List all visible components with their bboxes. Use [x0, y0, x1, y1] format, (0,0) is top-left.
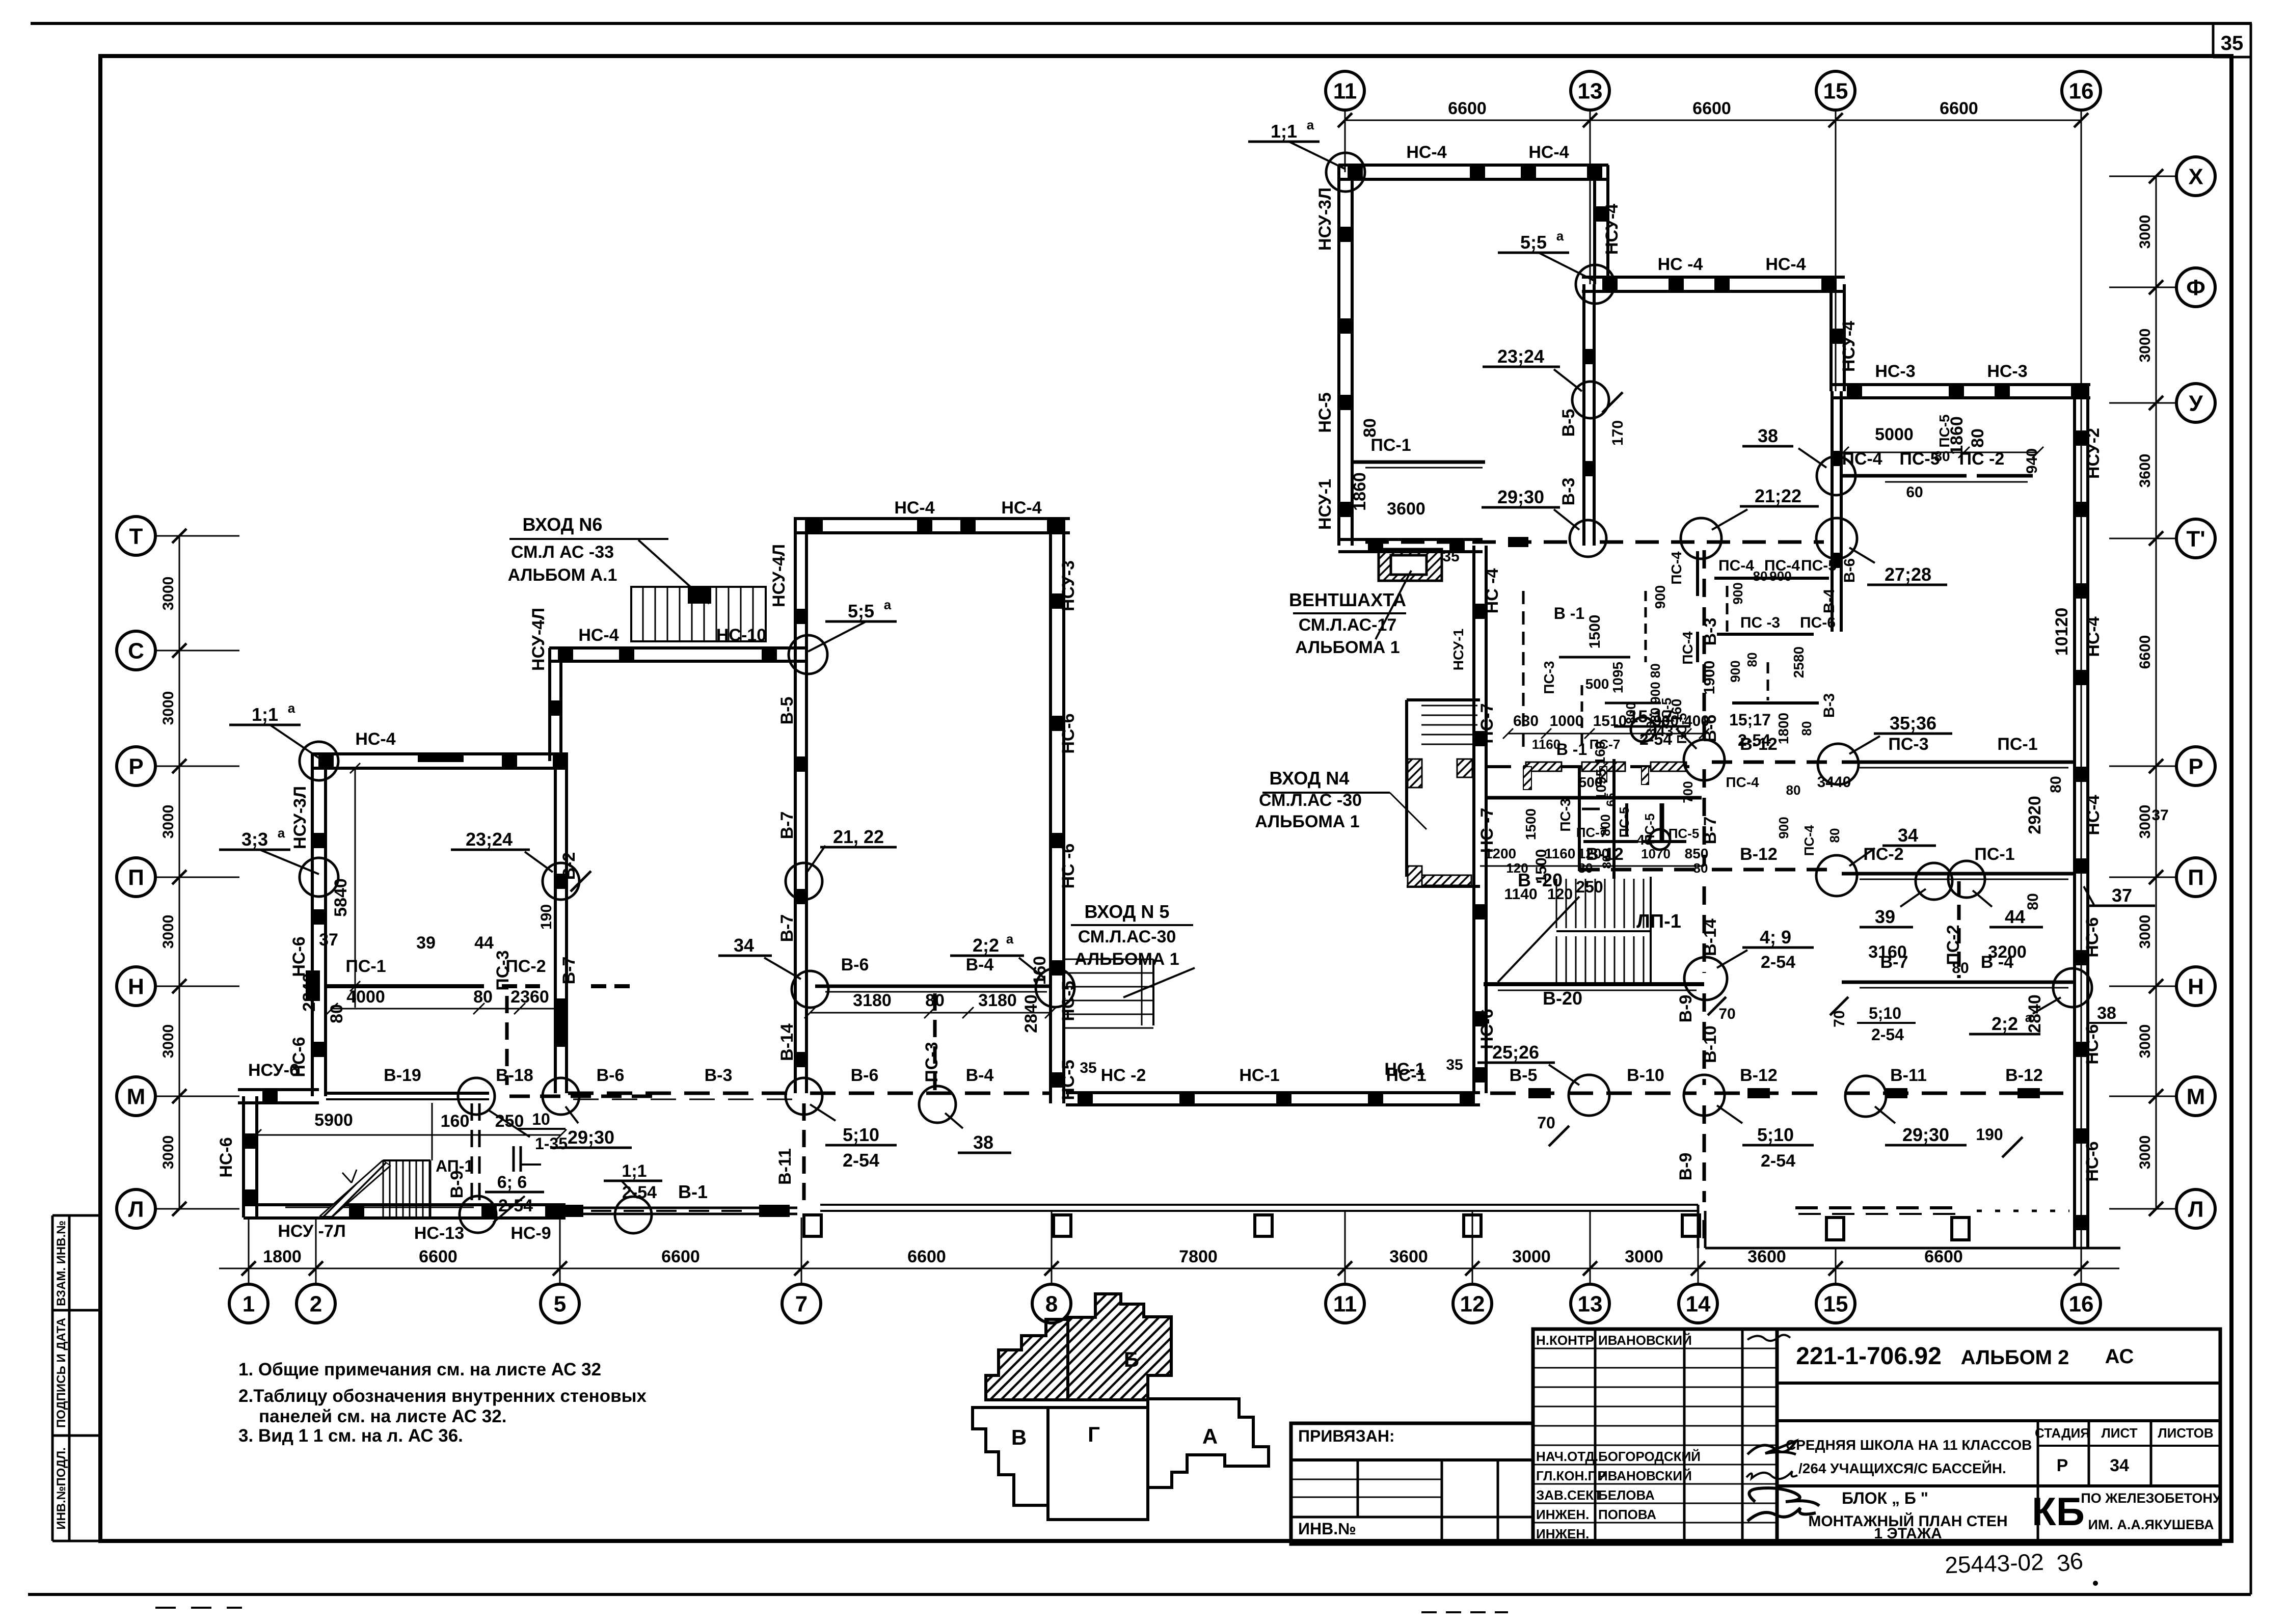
- svg-text:a: a: [1006, 931, 1014, 946]
- svg-text:1095: 1095: [1610, 662, 1626, 693]
- svg-text:900: 900: [1769, 569, 1791, 584]
- outer sheet bottom edge: [28, 1593, 2251, 1596]
- svg-text:2840: 2840: [300, 973, 319, 1012]
- callout 4;9 2-54: [1684, 957, 1727, 1000]
- svg-text:80: 80: [1693, 860, 1708, 876]
- svg-text:3000: 3000: [160, 1135, 177, 1170]
- svg-text:ПС-5: ПС-5: [1801, 557, 1837, 574]
- svg-text:НС -4: НС -4: [1483, 569, 1502, 614]
- entrance 4 porch walls: [1407, 698, 1480, 701]
- svg-text:3000: 3000: [2137, 329, 2154, 363]
- svg-text:2-54: 2-54: [1761, 953, 1795, 972]
- wall NS-3 NS-3 (row U): [1831, 383, 2090, 386]
- svg-text:6600: 6600: [1940, 99, 1978, 118]
- svg-text:ПС-4: ПС-4: [1842, 449, 1882, 469]
- svg-text:АЛЬБОМ А.1: АЛЬБОМ А.1: [508, 565, 617, 585]
- axis Ф right circle: [2176, 268, 2215, 307]
- wall NS-4 top of left block (row R): [312, 752, 568, 755]
- wall NSU-3L NS-5 NSU-1 left (axis 11): [1337, 165, 1340, 546]
- svg-text:850: 850: [1685, 846, 1709, 861]
- callout 5;10 2-54 right: [1684, 1075, 1725, 1116]
- svg-text:П: П: [128, 865, 144, 890]
- svg-text:БОГОРОДСКИЙ: БОГОРОДСКИЙ: [1598, 1449, 1701, 1464]
- svg-text:29;30: 29;30: [1497, 486, 1544, 507]
- vent shaft underline: [1293, 612, 1406, 614]
- svg-text:Н: Н: [2188, 974, 2204, 999]
- svg-text:ЗАВ.СЕКТ: ЗАВ.СЕКТ: [1536, 1487, 1602, 1503]
- svg-text:ПС-2: ПС-2: [1944, 925, 1963, 965]
- svg-text:НС-7: НС-7: [1477, 703, 1497, 743]
- axis С left circle: [117, 631, 155, 670]
- svg-text:В-11: В-11: [775, 1148, 795, 1185]
- svg-text:6600: 6600: [419, 1247, 458, 1266]
- svg-text:3600: 3600: [1387, 499, 1425, 519]
- svg-text:2840: 2840: [1021, 994, 1041, 1033]
- axis Т' right circle: [2176, 519, 2215, 558]
- callout 5;5a right block: [1576, 265, 1615, 304]
- svg-text:15: 15: [1823, 78, 1848, 103]
- svg-text:С: С: [128, 638, 144, 663]
- axis 1 bottom circle: [229, 1284, 268, 1323]
- axis 13 bottom circle: [1571, 1284, 1609, 1323]
- svg-text:СТАДИЯ: СТАДИЯ: [2035, 1425, 2090, 1441]
- svg-text:3;3: 3;3: [241, 829, 268, 850]
- svg-text:2360: 2360: [510, 987, 549, 1007]
- wall NS-4 NS-4 top of middle block (row T): [794, 517, 1070, 520]
- svg-text:НС -2: НС -2: [1101, 1066, 1146, 1085]
- svg-text:НАЧ.ОТД.: НАЧ.ОТД.: [1536, 1449, 1598, 1464]
- svg-text:35: 35: [1446, 1057, 1463, 1073]
- axis 16 bottom circle: [2062, 1284, 2101, 1323]
- svg-text:2: 2: [310, 1291, 322, 1316]
- svg-text:НС-4: НС-4: [578, 626, 618, 645]
- svg-text:3180: 3180: [853, 991, 892, 1010]
- svg-text:ГЛ.КОН.ПР: ГЛ.КОН.ПР: [1536, 1468, 1606, 1483]
- small partitions middle area: [1522, 591, 1525, 754]
- svg-text:НСУ-4Л: НСУ-4Л: [769, 544, 789, 607]
- svg-text:ЛП-1: ЛП-1: [1636, 911, 1681, 932]
- svg-text:6600: 6600: [1924, 1247, 1963, 1266]
- interior walls PS-4 PS-5 PS-2 room 15-16: [1841, 474, 1967, 478]
- svg-text:ИНВ.№: ИНВ.№: [1298, 1520, 1356, 1538]
- corridor T-prime dashed wall V-6 V-6 V-3: [1365, 540, 1579, 544]
- bottom dimension line: [219, 1268, 2119, 1269]
- svg-text:221-1-706.92: 221-1-706.92: [1796, 1343, 1942, 1370]
- callout 35;36: [1818, 744, 1859, 784]
- svg-text:2.Таблицу обозначения внутренн: 2.Таблицу обозначения внутренних стеновы…: [238, 1386, 647, 1406]
- canopy columns: [804, 1215, 821, 1236]
- svg-text:НС-4: НС-4: [894, 498, 934, 518]
- svg-text:1860: 1860: [1350, 472, 1369, 511]
- callout 1;1a left block: [300, 742, 338, 780]
- svg-text:В-3: В-3: [1821, 693, 1838, 718]
- svg-text:ИНВ.№ПОДЛ.: ИНВ.№ПОДЛ.: [55, 1447, 68, 1530]
- wall bottom of room 11-13 (row T): [1338, 538, 1483, 541]
- svg-text:Н.КОНТР: Н.КОНТР: [1536, 1333, 1594, 1348]
- svg-text:2-54: 2-54: [622, 1183, 657, 1202]
- wall V-11 dashed (axis 7 lower): [802, 1103, 806, 1208]
- svg-text:В-14: В-14: [1701, 918, 1720, 956]
- svg-text:1: 1: [243, 1291, 255, 1316]
- svg-text:ПС-1: ПС-1: [345, 957, 386, 976]
- svg-text:Р: Р: [2188, 754, 2203, 779]
- svg-text:2920: 2920: [2025, 796, 2044, 834]
- svg-text:В-6: В-6: [851, 1066, 879, 1085]
- svg-text:В-4: В-4: [1821, 589, 1838, 614]
- axis У right circle: [2176, 384, 2215, 422]
- svg-text:1;1: 1;1: [622, 1161, 647, 1181]
- interior dimension line middle block: [810, 1012, 1051, 1014]
- svg-text:1200: 1200: [1578, 846, 1609, 861]
- axis 11 top circle: [1326, 71, 1364, 110]
- svg-text:ИВАНОВСКИЙ: ИВАНОВСКИЙ: [1598, 1468, 1692, 1483]
- svg-text:2-54: 2-54: [1738, 731, 1770, 749]
- svg-text:4000: 4000: [346, 987, 385, 1007]
- svg-text:Р: Р: [128, 754, 143, 779]
- callout 5;5a mid: [789, 635, 827, 674]
- callout 15;17 2-54: [1684, 740, 1725, 780]
- svg-text:ИМ. А.А.ЯКУШЕВА: ИМ. А.А.ЯКУШЕВА: [2088, 1517, 2214, 1532]
- svg-text:44: 44: [474, 933, 494, 953]
- svg-text:НС-6: НС-6: [2083, 917, 2102, 957]
- svg-text:ПС-5: ПС-5: [1936, 414, 1952, 447]
- svg-text:Ф: Ф: [2186, 275, 2205, 300]
- svg-text:3000: 3000: [2137, 915, 2154, 949]
- svg-text:В-9: В-9: [1676, 995, 1696, 1023]
- svg-text:160: 160: [1030, 956, 1050, 985]
- svg-text:НС-4: НС-4: [2084, 616, 2103, 657]
- wall V-6 V-4 interior middle block (row N): [815, 985, 1050, 988]
- svg-text:ПС-1: ПС-1: [1997, 735, 2037, 754]
- callout 29;30 right: [1845, 1076, 1886, 1117]
- svg-text:2;2: 2;2: [973, 935, 999, 956]
- wall NSU-3 NS-6 NS-6 NS-5 right of middle block (axis 8): [1049, 519, 1052, 1103]
- svg-text:3000: 3000: [2137, 1135, 2154, 1170]
- svg-text:3180: 3180: [978, 991, 1017, 1010]
- svg-text:НСУ-1: НСУ-1: [1450, 629, 1466, 670]
- svg-text:80 900 80: 80 900 80: [1648, 663, 1663, 722]
- svg-text:6600: 6600: [1692, 99, 1731, 118]
- svg-text:ПС-5: ПС-5: [1669, 826, 1700, 841]
- svg-text:1500: 1500: [1586, 615, 1603, 649]
- svg-text:940: 940: [2024, 448, 2040, 474]
- svg-text:Л: Л: [2188, 1197, 2204, 1222]
- wall NSU-2 NS-4 NS-4 right outer (axis 16): [2073, 384, 2076, 1248]
- svg-text:190: 190: [538, 904, 555, 930]
- stairwell bottom wall V-20: [1484, 982, 1704, 986]
- svg-text:11: 11: [1333, 1291, 1357, 1316]
- svg-text:СМ.Л АС -33: СМ.Л АС -33: [511, 543, 614, 562]
- callout 5;10 2-54 mid: [786, 1078, 822, 1115]
- svg-text:ПС -3: ПС -3: [1740, 614, 1780, 631]
- svg-text:ПС-5: ПС-5: [1674, 713, 1689, 744]
- wall PS-1 PS-2 interior (row N): [326, 984, 484, 988]
- svg-text:3. Вид 1 1 см. на л. АС 36.: 3. Вид 1 1 см. на л. АС 36.: [238, 1426, 463, 1446]
- svg-text:60: 60: [1906, 484, 1923, 501]
- wall V-2 right of left block (axis 5): [554, 761, 557, 1093]
- svg-text:3600: 3600: [2137, 454, 2154, 488]
- axis 8 bottom circle: [1032, 1284, 1071, 1323]
- svg-text:НСУ-1: НСУ-1: [1315, 479, 1335, 530]
- row M dashed walls V-5 V-10 V-12 right block: [1490, 1092, 1697, 1095]
- svg-text:В-7: В-7: [777, 811, 797, 840]
- top dimension line: [1345, 120, 2081, 121]
- svg-text:700: 700: [1680, 781, 1696, 803]
- dim line entrance area: [1508, 733, 1704, 735]
- svg-text:НС-6: НС-6: [2083, 1141, 2102, 1181]
- svg-text:НС-5: НС-5: [1315, 392, 1335, 432]
- axis М left circle: [117, 1077, 155, 1116]
- svg-text:5;5: 5;5: [1520, 232, 1547, 253]
- svg-text:ПС-4: ПС-4: [1680, 631, 1696, 665]
- svg-text:5;5: 5;5: [848, 601, 874, 621]
- svg-text:СМ.Л.АС-30: СМ.Л.АС-30: [1078, 927, 1176, 946]
- svg-text:4; 9: 4; 9: [1760, 927, 1791, 948]
- svg-text:Р: Р: [2057, 1456, 2068, 1475]
- svg-text:15: 15: [1823, 1291, 1848, 1316]
- svg-text:В-3: В-3: [1559, 478, 1578, 506]
- svg-text:ПС-6: ПС-6: [1800, 614, 1836, 631]
- svg-text:НСУ-4: НСУ-4: [1602, 204, 1622, 255]
- svg-text:29;30: 29;30: [568, 1127, 614, 1148]
- callout 34 mid: [792, 971, 828, 1008]
- svg-text:В-7: В-7: [1701, 817, 1720, 845]
- svg-text:1. Общие примечания см. на лис: 1. Общие примечания см. на листе АС 32: [238, 1360, 601, 1379]
- svg-text:ПС-7: ПС-7: [1590, 737, 1621, 752]
- svg-text:1800: 1800: [1775, 713, 1791, 744]
- svg-text:ИВАНОВСКИЙ: ИВАНОВСКИЙ: [1598, 1333, 1692, 1348]
- axis 16 top circle: [2062, 71, 2101, 110]
- svg-text:А: А: [1202, 1424, 1218, 1448]
- svg-text:В-3: В-3: [1701, 618, 1720, 646]
- wall V-4 V-3 (axis 15 down from U): [1831, 391, 1834, 632]
- svg-text:НС-5: НС-5: [1059, 981, 1078, 1021]
- axis П left circle: [117, 858, 155, 897]
- wall NS-6 outer left (axis 1): [242, 1096, 245, 1217]
- svg-text:НСУ-4Л: НСУ-4Л: [529, 608, 548, 671]
- svg-text:3000: 3000: [160, 1024, 177, 1059]
- svg-text:ЛИСТОВ: ЛИСТОВ: [2158, 1425, 2213, 1441]
- svg-text:НС-9: НС-9: [510, 1224, 551, 1243]
- left stamp column: [51, 1215, 54, 1541]
- svg-text:5900: 5900: [314, 1111, 353, 1130]
- svg-text:ПС-1: ПС-1: [1370, 436, 1411, 455]
- svg-text:В-19: В-19: [384, 1066, 421, 1085]
- svg-text:НС-6: НС-6: [1477, 1009, 1497, 1049]
- svg-text:В-20: В-20: [1543, 988, 1582, 1009]
- svg-text:10120: 10120: [2052, 608, 2071, 656]
- row L dashed wall V-12 right block + columns: [1795, 1206, 1961, 1209]
- axis Т left circle: [117, 517, 155, 555]
- wall NSU-3L / NS-6 left of left block (axis 2): [311, 754, 314, 1096]
- svg-text:3000: 3000: [160, 915, 177, 949]
- svg-text:НС-4: НС-4: [1528, 143, 1569, 162]
- svg-text:НСУ-3Л: НСУ-3Л: [290, 786, 310, 849]
- circle 43 small room: [1650, 829, 1670, 850]
- svg-text:НС -6: НС -6: [1059, 844, 1078, 889]
- svg-text:КБ: КБ: [2032, 1489, 2085, 1534]
- svg-text:37: 37: [319, 930, 338, 950]
- svg-text:НС-6: НС-6: [217, 1137, 236, 1177]
- svg-text:6600: 6600: [907, 1247, 946, 1266]
- signatures: [1747, 1335, 1790, 1341]
- canopy right drop: [1697, 1205, 1700, 1248]
- svg-text:П: П: [2188, 865, 2204, 890]
- callout 25;26: [1569, 1075, 1609, 1116]
- svg-text:8: 8: [1045, 1291, 1058, 1316]
- svg-text:800: 800: [1598, 814, 1613, 836]
- svg-text:НС-6: НС-6: [289, 936, 309, 977]
- callout 39 44 right: [1916, 863, 1952, 900]
- callout 2;2a middle: [1036, 968, 1074, 1007]
- interior dimension line left block: [332, 1008, 561, 1010]
- svg-text:1160: 1160: [1532, 737, 1560, 752]
- svg-text:3600: 3600: [1747, 1247, 1786, 1266]
- svg-text:1000: 1000: [1550, 713, 1584, 729]
- callout 29;30 T-prime: [1570, 520, 1606, 557]
- interior V-7 V-4 row N right block: [1842, 981, 2074, 984]
- svg-text:15;17: 15;17: [1729, 711, 1771, 729]
- stair entrance 6: [631, 587, 766, 641]
- svg-text:34: 34: [1898, 825, 1918, 846]
- canopy edge row L long double line: [820, 1204, 1698, 1206]
- svg-text:ВХОД N 5: ВХОД N 5: [1085, 901, 1170, 922]
- callout 23;24 right block: [1572, 382, 1609, 418]
- callout 3;3a: [300, 858, 338, 897]
- svg-text:ИНЖЕН.: ИНЖЕН.: [1536, 1526, 1589, 1541]
- svg-text:3000: 3000: [2137, 805, 2154, 839]
- svg-text:25443-02: 25443-02: [1944, 1549, 2044, 1579]
- stairwell box walls: [1486, 796, 1702, 800]
- svg-text:СРЕДНЯЯ ШКОЛА НА 11 КЛАССОВ: СРЕДНЯЯ ШКОЛА НА 11 КЛАССОВ: [1786, 1437, 2032, 1453]
- svg-text:2-54: 2-54: [843, 1150, 879, 1171]
- ventilation shaft: [1379, 549, 1442, 581]
- privyazan box: [1291, 1423, 1533, 1544]
- svg-text:23;24: 23;24: [1497, 346, 1544, 367]
- outer sheet top edge: [31, 22, 2252, 25]
- svg-text:/264 УЧАЩИХСЯ/С БАССЕЙН.: /264 УЧАЩИХСЯ/С БАССЕЙН.: [1798, 1460, 2006, 1476]
- svg-text:11: 11: [1333, 78, 1357, 103]
- svg-text:В-2: В-2: [559, 852, 579, 880]
- svg-text:НС -4: НС -4: [1658, 255, 1703, 274]
- svg-text:ВХОД N4: ВХОД N4: [1270, 768, 1350, 789]
- svg-text:16: 16: [2069, 1291, 2094, 1316]
- sheet number box: [2212, 23, 2215, 57]
- axis Н left circle: [117, 967, 155, 1006]
- svg-text:2;2: 2;2: [1992, 1013, 2018, 1034]
- svg-text:a: a: [278, 825, 285, 841]
- small room dim line: [1480, 865, 1704, 867]
- wall V-9 dashed below (axis ~930): [471, 1103, 473, 1208]
- wall PS-3 dashed middle block: [933, 993, 937, 1090]
- svg-text:6600: 6600: [1448, 99, 1487, 118]
- svg-text:900: 900: [1652, 585, 1668, 609]
- svg-text:a: a: [1556, 228, 1564, 243]
- svg-text:12: 12: [1460, 1291, 1485, 1316]
- svg-text:Г: Г: [1088, 1422, 1100, 1446]
- svg-text:630: 630: [1513, 713, 1539, 729]
- entrance 4 stair treads: [1421, 705, 1477, 707]
- vent shaft leader: [1376, 571, 1411, 639]
- svg-text:В-5: В-5: [1510, 1066, 1538, 1085]
- wall PS-3 dashed interior: [505, 996, 509, 1085]
- callout 29;30 axis5: [543, 1078, 579, 1115]
- axis 11 bottom circle: [1326, 1284, 1364, 1323]
- key plan block B hatched: [986, 1319, 1068, 1400]
- stairwell LP-1 treads: [1556, 879, 1557, 928]
- svg-text:44: 44: [2005, 906, 2025, 927]
- svg-text:ИНЖЕН.: ИНЖЕН.: [1536, 1507, 1589, 1522]
- svg-text:ПОДПИСЬ И ДАТА: ПОДПИСЬ И ДАТА: [55, 1318, 68, 1428]
- svg-text:35: 35: [1080, 1060, 1096, 1076]
- wall V-5 V-3 (axis 13 down): [1582, 284, 1585, 546]
- svg-text:80: 80: [1753, 569, 1768, 584]
- callout 21;22 mid: [786, 863, 822, 900]
- svg-text:3000: 3000: [2137, 1024, 2154, 1059]
- svg-text:У: У: [2189, 391, 2203, 416]
- svg-text:a: a: [288, 700, 295, 716]
- key plan block G outline: [1048, 1408, 1148, 1520]
- svg-text:1 ЭТАЖА: 1 ЭТАЖА: [1874, 1525, 1942, 1542]
- svg-text:5840: 5840: [331, 878, 351, 917]
- svg-text:10: 10: [532, 1110, 550, 1128]
- callout 1;1a top right block: [1326, 153, 1365, 192]
- svg-text:1070: 1070: [1641, 846, 1671, 861]
- svg-text:800: 800: [1623, 702, 1638, 724]
- svg-text:СМ.Л.АС -30: СМ.Л.АС -30: [1259, 791, 1362, 810]
- svg-text:3600: 3600: [1389, 1247, 1428, 1266]
- callout 38 mid: [919, 1086, 956, 1123]
- svg-text:80: 80: [1968, 428, 1987, 448]
- svg-text:29;30: 29;30: [1902, 1124, 1949, 1145]
- svg-text:1800: 1800: [263, 1247, 302, 1266]
- title block signature table: [1594, 1329, 1597, 1544]
- svg-text:АЛЬБОМА 1: АЛЬБОМА 1: [1295, 638, 1400, 657]
- axis 7 bottom circle: [782, 1284, 821, 1323]
- svg-text:ПС-1: ПС-1: [1974, 845, 2014, 864]
- svg-text:120: 120: [1506, 860, 1528, 876]
- svg-text:В-5: В-5: [1559, 409, 1578, 437]
- wall NSU-4 right of room 11-13 (axis 13): [1593, 165, 1596, 284]
- entrance 6 underline: [509, 538, 668, 540]
- svg-text:37: 37: [2151, 807, 2168, 824]
- svg-text:16: 16: [2069, 78, 2094, 103]
- entrance 4 leader: [1262, 792, 1390, 794]
- svg-text:М: М: [127, 1084, 146, 1109]
- svg-text:ВЗАМ. ИНВ.№: ВЗАМ. ИНВ.№: [55, 1221, 68, 1306]
- interior PS-3 PS-1 row R right block: [1842, 761, 2074, 764]
- svg-text:НС-6: НС-6: [2083, 1024, 2102, 1064]
- svg-text:СМ.Л.АС-17: СМ.Л.АС-17: [1299, 615, 1397, 635]
- svg-text:ВЕНТШАХТА: ВЕНТШАХТА: [1289, 589, 1406, 610]
- svg-text:5;10: 5;10: [843, 1124, 879, 1145]
- svg-text:27;28: 27;28: [1885, 564, 1931, 585]
- svg-text:ПС-4: ПС-4: [1669, 551, 1684, 585]
- svg-text:НСУ-4: НСУ-4: [1839, 321, 1859, 372]
- svg-text:900: 900: [1776, 817, 1791, 838]
- axis Л left circle: [117, 1189, 155, 1228]
- vent leader line entrance 6: [638, 540, 709, 604]
- svg-text:6600: 6600: [2137, 635, 2154, 669]
- svg-text:М: М: [2187, 1084, 2205, 1109]
- svg-text:ПС-3: ПС-3: [1557, 798, 1573, 831]
- outer sheet right edge: [2250, 23, 2252, 1594]
- svg-text:80: 80: [1744, 653, 1760, 667]
- wall V-12 dashed row P (x3345-3605): [1712, 761, 1829, 764]
- callout 34 right: [1816, 855, 1857, 896]
- PS-2 vertical dashed: [1957, 881, 1961, 978]
- svg-text:2840: 2840: [2025, 994, 2044, 1033]
